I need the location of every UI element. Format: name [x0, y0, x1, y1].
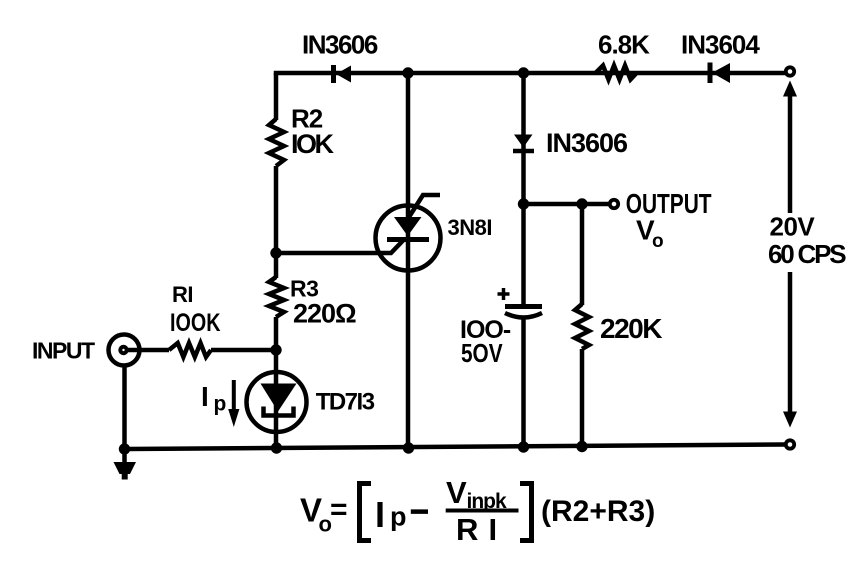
svg-text:IN3604: IN3604: [681, 30, 760, 60]
junction top rail / D3 column: [518, 67, 529, 78]
wire right column 1 (top rail to cap): [521, 73, 526, 306]
svg-text:RI: RI: [172, 282, 193, 307]
wire through tunnel diode TD713: [274, 373, 279, 449]
svg-text:IN3606: IN3606: [546, 128, 628, 158]
svg-text:5OV: 5OV: [461, 339, 503, 368]
svg-text:INPUT: INPUT: [32, 338, 95, 364]
diode D1 IN3606 (top left, on top rail): [334, 65, 352, 83]
tunnel diode TD713: [247, 372, 307, 432]
junction top rail / U1 anode: [402, 67, 413, 78]
wire cap bottom to ground rail: [521, 319, 526, 447]
formula left bracket: [360, 484, 372, 541]
20V 60CPS measurement arrow lower: [783, 272, 797, 428]
junction ground rail / 220K: [576, 441, 587, 452]
svg-text:R: R: [456, 512, 478, 547]
svg-text:TD7I3: TD7I3: [316, 389, 375, 416]
formula fraction bar: [446, 509, 519, 513]
capacitor C1 plus sign: [498, 288, 510, 300]
transistor U1 3N81 (silicon controlled switch): [376, 206, 441, 271]
junction ground rail / U1 cathode: [403, 442, 414, 453]
svg-text:p: p: [214, 393, 227, 416]
resistor R2: [269, 119, 284, 166]
wire output branch: [524, 202, 610, 207]
junction ground rail / TD713: [271, 442, 282, 453]
wire 220K to ground rail: [580, 349, 585, 447]
diode D2 IN3604 (top right): [710, 63, 730, 84]
wire input terminal down to ground rail: [122, 366, 127, 449]
resistor R3: [269, 277, 284, 317]
svg-text:I: I: [201, 381, 209, 412]
junction D3 / output branch: [518, 198, 529, 209]
svg-text:IOK: IOK: [291, 129, 335, 159]
svg-text:V: V: [446, 475, 467, 510]
diode D3 IN3606 (vertical, clamp): [513, 135, 534, 152]
svg-text:220Ω: 220Ω: [293, 298, 356, 328]
20V 60CPS measurement arrow upper: [783, 81, 797, 214]
capacitor C1 plates: [505, 307, 542, 318]
svg-text:p: p: [390, 502, 407, 532]
wire bottom ground rail: [125, 445, 787, 450]
wire R2 to node A: [274, 166, 279, 278]
svg-text:o: o: [652, 231, 664, 252]
terminal top right: [786, 67, 794, 75]
junction ground rail / input branch: [119, 443, 130, 454]
input terminal: [109, 335, 140, 366]
svg-text:I: I: [489, 512, 498, 547]
resistor R1: [169, 343, 211, 357]
svg-text:I: I: [375, 494, 385, 535]
wire output node down to 220K: [580, 204, 585, 305]
svg-text:6.8K: 6.8K: [598, 30, 650, 60]
junction node A (R2/R3/gate): [270, 247, 281, 258]
formula right bracket: [520, 484, 532, 541]
terminal bottom right: [786, 440, 794, 448]
svg-text:20V: 20V: [770, 212, 816, 242]
svg-text:220K: 220K: [600, 313, 662, 344]
svg-text:60 CPS: 60 CPS: [768, 239, 846, 269]
ground: [114, 449, 137, 480]
svg-text:3N8I: 3N8I: [448, 215, 492, 240]
formula Vo = [Ip - Vinpk/R1](R2+R3): [300, 475, 655, 547]
wire anode-gate of U1: [409, 195, 440, 217]
Ip current arrow: [228, 380, 239, 427]
wire R1 to node B: [211, 348, 276, 353]
svg-text:IN3606: IN3606: [302, 30, 378, 60]
formula minus: [411, 509, 428, 514]
wire middle column (anode of U1 to cathode rail): [406, 73, 411, 448]
output terminal: [610, 200, 618, 208]
svg-text:(R2+R3): (R2+R3): [541, 495, 655, 528]
svg-text:=: =: [330, 493, 348, 526]
junction node B (R1/R3/TD713): [270, 344, 281, 355]
wire top rail: [276, 73, 786, 75]
junction ground rail / cap: [518, 441, 529, 452]
wire R3 to node B: [274, 317, 279, 373]
wire left column upper (to R2): [274, 73, 279, 120]
wire input terminal to R1: [128, 348, 169, 353]
svg-text:IOOK: IOOK: [170, 309, 221, 337]
resistor R4 220K: [575, 304, 589, 349]
wire top rail resistor 6.8K: [596, 66, 637, 80]
junction output / 220K: [576, 198, 587, 209]
wire gate of U1 from node A: [276, 240, 404, 254]
